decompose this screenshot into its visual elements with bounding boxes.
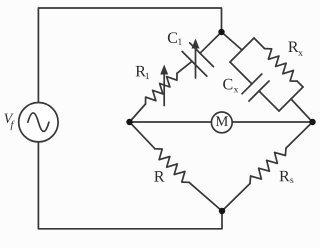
wire: split to W corner	[230, 50, 242, 62]
wire: W corner to Cx	[230, 62, 252, 84]
wire: top node to parallel combo	[222, 32, 243, 50]
wire: E corner to join	[291, 87, 303, 99]
arrow of variable capacitor C1	[195, 47, 197, 78]
resistor R	[155, 149, 189, 183]
wire: Cx to S corner	[259, 91, 279, 111]
label Rs	[280, 171, 290, 181]
wire: Rs to right node	[286, 122, 313, 148]
ac source Vf	[19, 103, 58, 142]
resistor Rs	[250, 148, 286, 183]
meter M	[211, 112, 232, 133]
label R	[154, 171, 164, 181]
label Cx	[223, 79, 232, 90]
resistor R1 (variable)	[146, 73, 178, 104]
wire: left node to R	[130, 122, 156, 149]
wire: S corner to join	[279, 99, 291, 111]
junction dot: right node	[309, 119, 315, 125]
wire: meter to right node	[232, 121, 312, 123]
label Vf	[4, 114, 13, 123]
label R1	[136, 66, 146, 76]
wire: source top to top node	[38, 8, 221, 103]
capacitor C1 plate 2	[190, 43, 214, 67]
wire: C1 to top node	[200, 32, 222, 53]
arrow of variable resistor R1	[163, 73, 165, 106]
wire: R to bottom node	[189, 182, 222, 211]
junction dot: top node	[218, 29, 224, 35]
label Rx	[288, 42, 298, 52]
capacitor Cx plate 1	[242, 74, 262, 94]
resistor Rx	[265, 49, 298, 82]
wire: split to N corner	[242, 38, 254, 50]
wire: Rx to E corner	[297, 81, 303, 87]
wire: join to right node	[291, 99, 313, 122]
wire: bottom node to Rs	[222, 184, 250, 212]
junction dot: bottom node	[219, 208, 225, 214]
wire: source bottom to bottom node	[38, 142, 222, 229]
wire: left node to R1	[130, 104, 146, 122]
label C1	[168, 32, 177, 43]
junction dot: left node	[126, 119, 132, 125]
capacitor Cx plate 2	[249, 81, 269, 101]
wire: R1 to C1	[177, 61, 192, 73]
wire: N corner to Rx	[254, 38, 265, 49]
wire: left node to meter	[130, 121, 212, 123]
capacitor C1 (variable) plate 1	[182, 51, 207, 76]
